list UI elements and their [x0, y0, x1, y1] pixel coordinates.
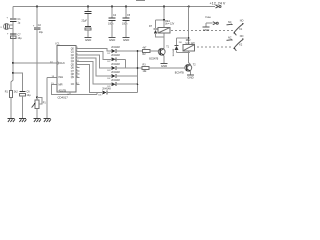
svg-text:NC: NC	[228, 21, 232, 24]
ground	[109, 38, 116, 43]
svg-text:BC547B: BC547B	[149, 57, 158, 60]
svg-text:1N4148: 1N4148	[173, 48, 175, 56]
svg-text:GND: GND	[85, 38, 91, 42]
relay RE1 coil	[158, 7, 175, 34]
wire left vertical from rail	[12, 7, 14, 19]
ground	[44, 119, 51, 123]
wire Q2 collector	[189, 51, 191, 65]
ground	[160, 63, 167, 68]
diode D8 flyback	[173, 37, 190, 56]
wire	[36, 109, 38, 118]
node junction	[12, 72, 14, 74]
capacitor C2 electrolytic	[33, 24, 44, 34]
svg-text:INH: INH	[59, 75, 64, 79]
wire Q1 collector	[163, 33, 165, 49]
resistor R3	[142, 64, 149, 74]
capacitor C7 electrolytic below mic	[7, 33, 22, 41]
capacitor C4	[108, 7, 117, 38]
ground	[85, 38, 92, 43]
wire mic line down	[12, 63, 14, 73]
resistor R2	[143, 47, 151, 57]
svg-text:100n: 100n	[122, 22, 128, 25]
supply terminal +12..24V	[210, 2, 226, 8]
wire	[36, 30, 38, 100]
wire dashed link RE1 to K1	[171, 30, 233, 32]
svg-text:Fuse: Fuse	[206, 16, 212, 19]
transistor Q2 BC547B	[175, 63, 196, 74]
wire branch to C6 column	[13, 73, 23, 91]
wire EN pin 13 branch down	[47, 77, 57, 118]
diode D2	[108, 54, 126, 63]
svg-text:GND: GND	[203, 28, 209, 32]
wire down to R1	[11, 73, 13, 91]
wire bus B vertical	[137, 51, 139, 93]
node junction rail at relay1 column	[163, 5, 165, 7]
svg-text:2N4148: 2N4148	[111, 63, 120, 66]
svg-text:MR: MR	[59, 82, 63, 86]
transistor Q1 BC547B	[149, 46, 169, 61]
wire Q1 emitter to ground	[163, 55, 165, 63]
svg-text:CO: CO	[71, 83, 75, 86]
ground	[187, 75, 194, 80]
diode D3	[108, 63, 143, 72]
wire R3 to Q2 base	[149, 67, 185, 69]
wire MR pin 15 jog to bottom return	[52, 85, 97, 95]
ground	[34, 119, 41, 123]
op IC1 CD4017 counter	[56, 41, 76, 99]
wire C2 column from rail	[36, 7, 38, 28]
svg-text:10µ: 10µ	[39, 31, 44, 34]
svg-text:Un= 12V: Un= 12V	[186, 42, 196, 45]
node junction on rail at C2 column	[36, 5, 38, 7]
wire	[10, 98, 12, 119]
wire top supply rail	[13, 6, 215, 8]
node junction rail at relay2 column	[188, 5, 190, 7]
node junction rail at C4 column	[111, 5, 113, 7]
capacitor C1	[7, 17, 22, 25]
ground	[8, 119, 15, 123]
svg-text:+12..24 V: +12..24 V	[210, 2, 226, 6]
svg-text:2N4148: 2N4148	[111, 46, 120, 49]
svg-text:CLK: CLK	[60, 61, 65, 65]
wire jog Q5 to diode row6	[80, 65, 103, 93]
svg-text:4k7: 4k7	[143, 47, 148, 50]
relay contact K2	[227, 35, 244, 51]
node junction rail at C3 column	[87, 5, 89, 7]
wire R2 to Q1 base	[150, 50, 159, 52]
wire	[12, 22, 14, 63]
svg-text:100n: 100n	[108, 22, 114, 25]
wire jog Q3 to diode row4	[80, 58, 112, 76]
potentiometer P1	[32, 96, 47, 108]
diode D1	[108, 46, 143, 55]
label cut text at top edge	[136, 0, 145, 2]
svg-text:NC: NC	[228, 37, 232, 40]
capacitor C6 electrolytic	[19, 91, 31, 98]
wire CLK line to IC pin 14	[13, 62, 57, 64]
diode D6	[99, 87, 138, 96]
svg-text:2N4148: 2N4148	[111, 71, 120, 74]
svg-text:GND: GND	[109, 38, 115, 42]
svg-text:10µ: 10µ	[18, 37, 23, 40]
wire bottom return rail	[97, 93, 102, 95]
diode D7 flyback	[149, 19, 165, 37]
diode D5	[108, 79, 138, 88]
svg-text:2N4148: 2N4148	[102, 87, 111, 90]
wire jog Q2 to diode row3	[80, 55, 112, 68]
wire jog Q1 to diode row2	[80, 52, 112, 60]
svg-text:NO: NO	[240, 20, 244, 23]
relay contact K1	[227, 20, 244, 36]
wire jog Q0 to diode row1	[80, 49, 112, 52]
ground	[123, 38, 130, 43]
relay RE2 coil	[183, 7, 195, 51]
svg-text:NO: NO	[240, 35, 244, 38]
svg-text:2N4148: 2N4148	[111, 54, 120, 57]
wire dashed link RE2 to K2	[197, 46, 233, 48]
svg-text:GND: GND	[123, 38, 129, 42]
svg-text:IC1: IC1	[56, 41, 61, 45]
svg-text:2N4148: 2N4148	[111, 79, 120, 82]
node junction mic line to CLK wire	[12, 62, 14, 64]
svg-text:22µF: 22µF	[82, 19, 88, 22]
microphone MIC1	[1, 24, 14, 30]
wire Q2 emitter to ground	[189, 71, 191, 75]
ground	[19, 119, 26, 123]
svg-text:10µ: 10µ	[27, 94, 32, 97]
svg-text:BC547B: BC547B	[175, 72, 184, 75]
svg-text:4017B: 4017B	[59, 88, 67, 92]
node junction rail at C5 column	[125, 5, 127, 7]
svg-text:GND: GND	[187, 76, 193, 80]
IC right pin stubs with numbers	[76, 47, 80, 85]
wire jog Q4 to diode row5	[80, 61, 112, 84]
pin 8 stub	[69, 92, 71, 95]
svg-text:2k2: 2k2	[14, 91, 19, 94]
terminal Fuse with ground	[203, 16, 219, 32]
wire	[22, 96, 24, 118]
svg-text:Un= 12V: Un= 12V	[165, 23, 175, 26]
diode D4	[108, 71, 138, 80]
resistor R1	[5, 91, 19, 98]
capacitor C5	[122, 7, 131, 38]
capacitor C3 electrolytic supply	[82, 7, 92, 38]
wire bus rows2-3	[125, 59, 127, 68]
